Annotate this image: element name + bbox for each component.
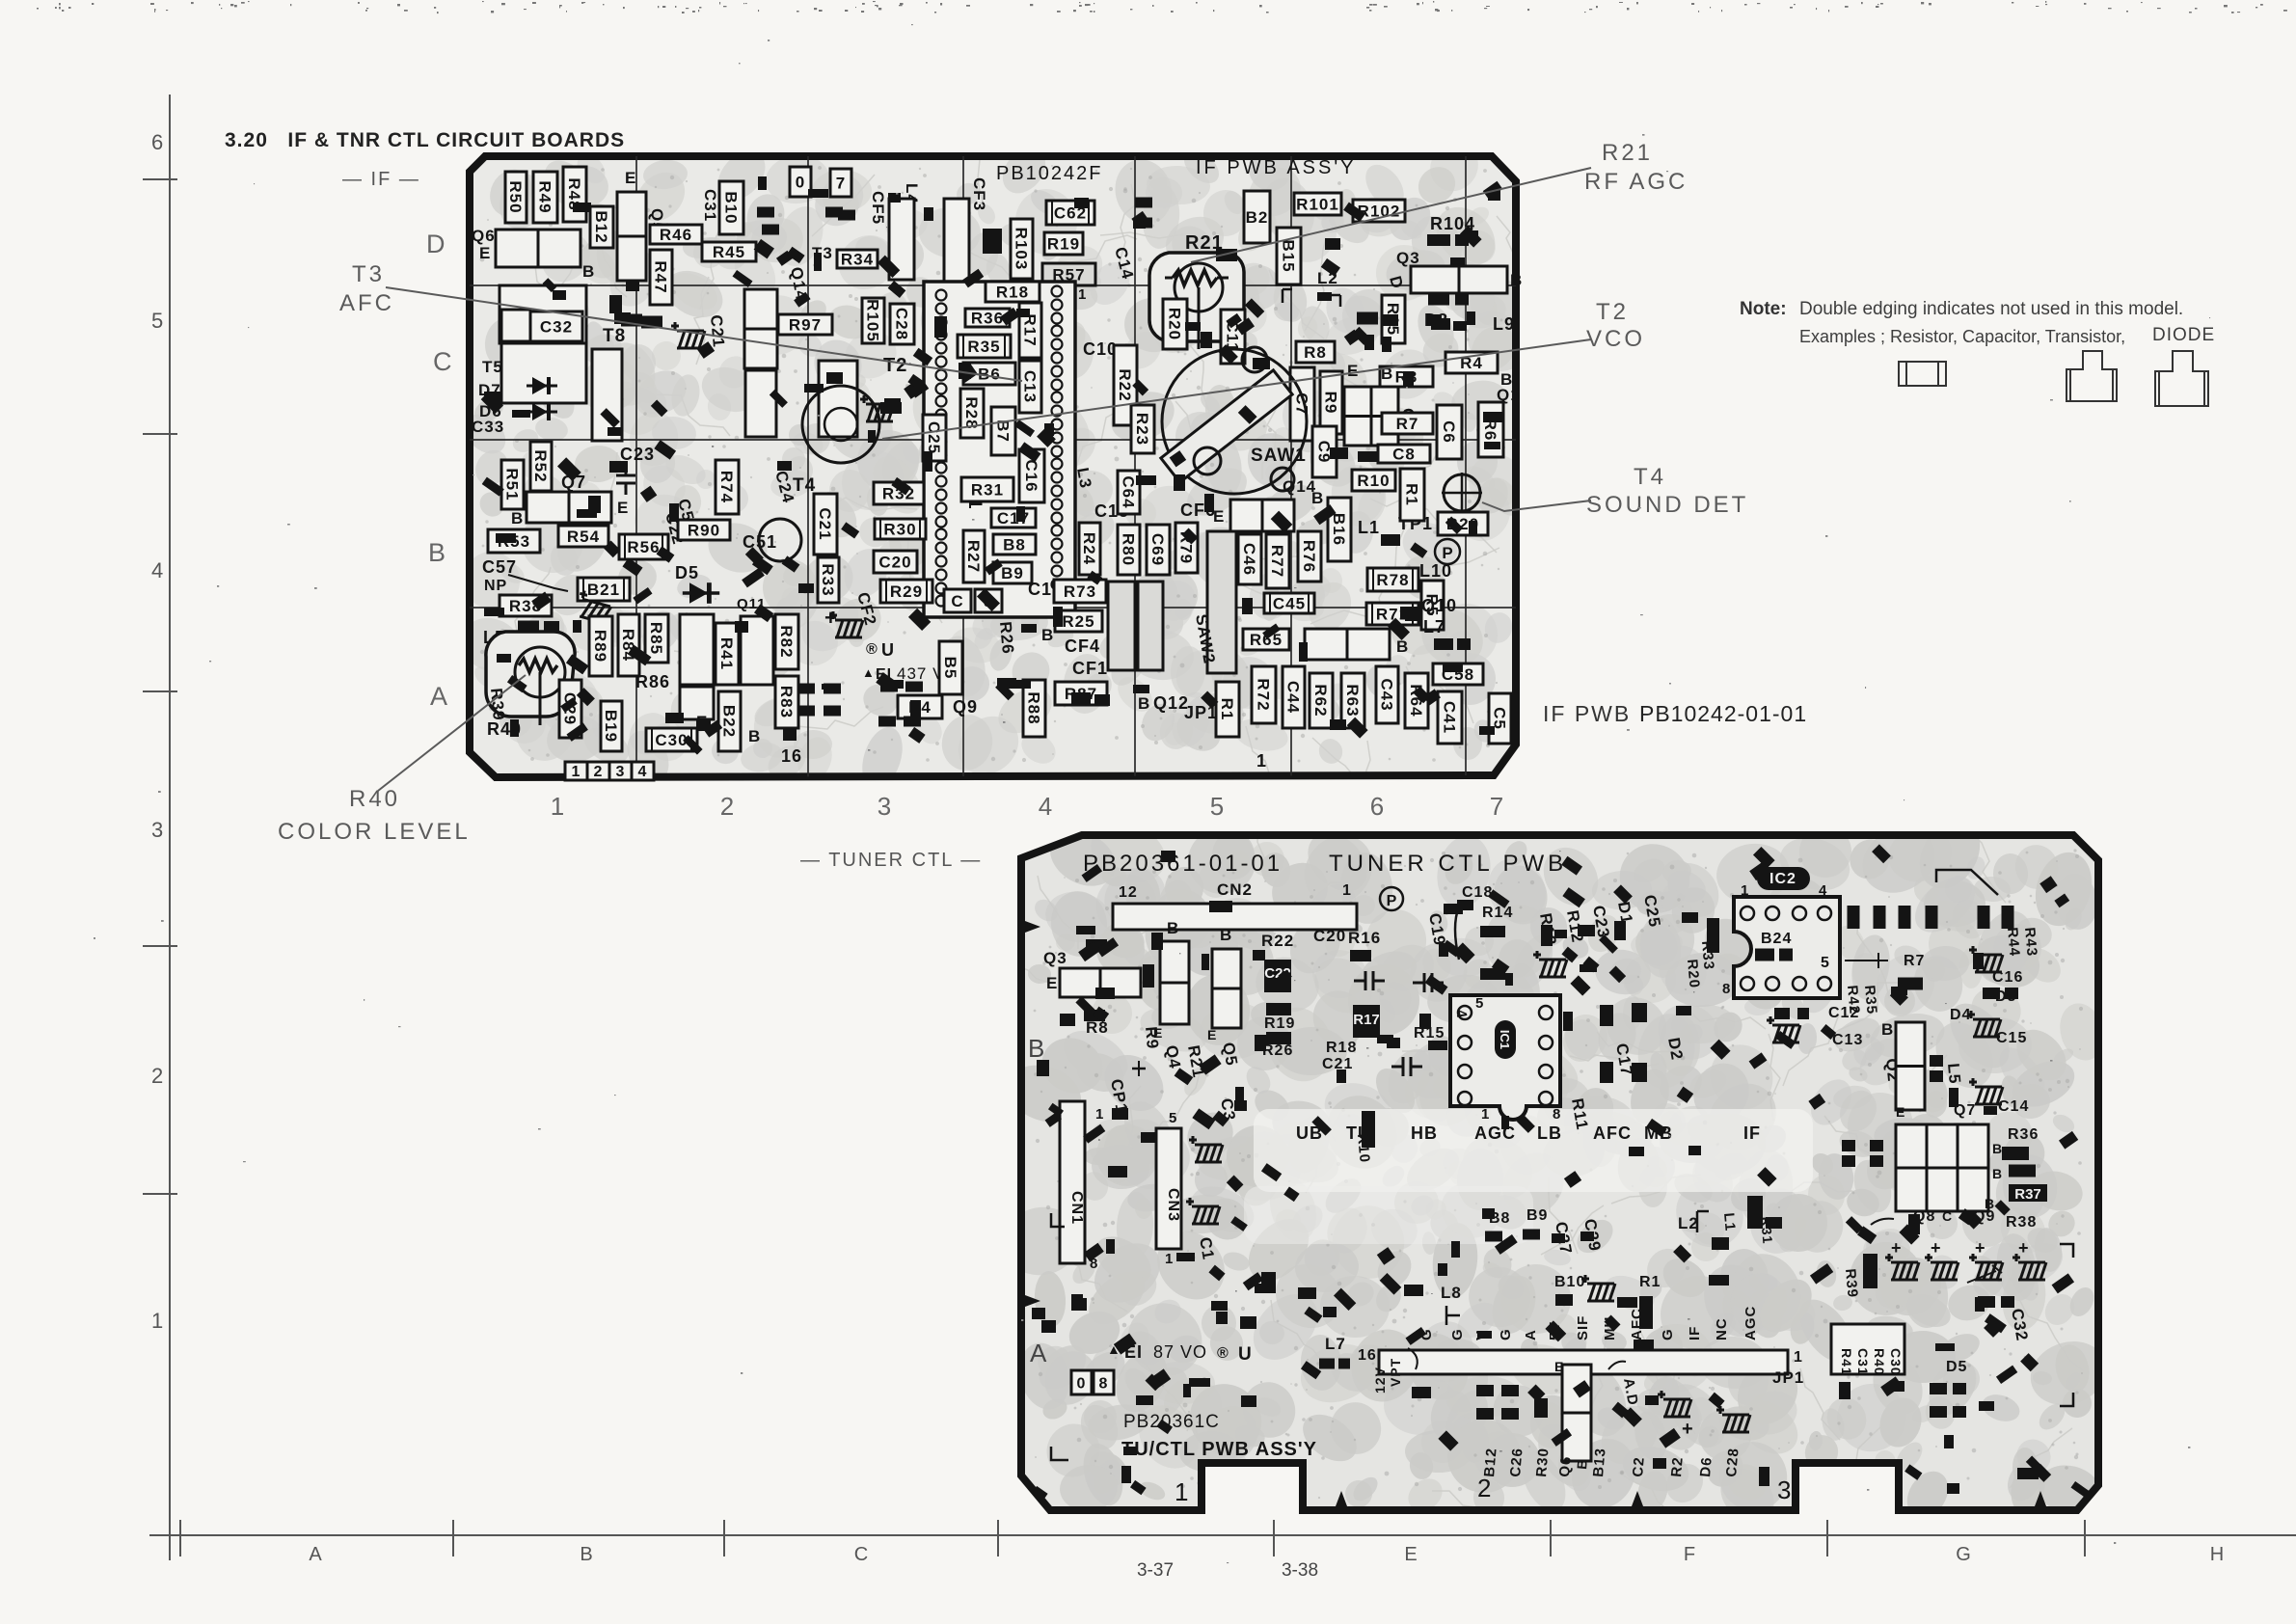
svg-text:C21: C21 [707, 314, 728, 349]
resistor R88 [1023, 680, 1045, 737]
svg-text:Q3: Q3 [1396, 249, 1420, 267]
svg-text:B5: B5 [941, 657, 959, 680]
resistor R37 black body [2009, 1184, 2047, 1202]
svg-text:4: 4 [1039, 792, 1052, 821]
svg-text:PB10242-01-01: PB10242-01-01 [1639, 701, 1807, 726]
resistor R71 [1366, 603, 1418, 625]
capacitor C7 [1290, 367, 1314, 441]
svg-text:16: 16 [781, 746, 802, 766]
index triangle c [2035, 1491, 2046, 1506]
solder pad [762, 225, 779, 235]
svg-text:SOUND DET: SOUND DET [1586, 492, 1748, 518]
svg-text:1: 1 [1794, 1349, 1803, 1366]
solder pad [1434, 638, 1453, 650]
resistor R83 [775, 676, 798, 728]
transistor Q7 tuner body [1896, 1124, 1988, 1211]
svg-text:E: E [1046, 974, 1058, 992]
svg-text:C46: C46 [1240, 543, 1258, 576]
solder pad [1427, 234, 1450, 246]
index triangle b [1632, 1491, 1643, 1506]
potentiometer R40 body [486, 632, 575, 717]
svg-text:B: B [1220, 926, 1232, 944]
svg-text:VCO: VCO [1586, 326, 1645, 352]
resistor R105 [862, 298, 884, 343]
resistor R72 [1252, 666, 1276, 723]
resistor R6 [1478, 402, 1503, 457]
svg-text:IF: IF [1687, 1326, 1703, 1340]
inductor L2 bracket [1283, 289, 1340, 307]
svg-text:0: 0 [1077, 1376, 1087, 1393]
svg-text:Examples ; Resistor, Capacitor: Examples ; Resistor, Capacitor, Transist… [1799, 327, 2125, 346]
svg-text:4: 4 [1819, 882, 1827, 899]
capacitor symbol C19a [1413, 973, 1444, 992]
resistor R22 [1114, 345, 1137, 425]
svg-text:C31: C31 [701, 189, 719, 222]
svg-text:CF5: CF5 [869, 191, 887, 225]
svg-text:C14: C14 [1998, 1098, 2029, 1115]
solder pad [2009, 1165, 2036, 1177]
svg-text:B: B [1992, 1141, 2003, 1156]
svg-text:C1: C1 [1196, 1235, 1218, 1261]
transistor Q5 body [617, 192, 646, 281]
fiducial box 0 [790, 167, 811, 197]
resistor R33 black body [1707, 918, 1719, 953]
svg-text:R88: R88 [1025, 691, 1043, 724]
svg-text:HB: HB [1411, 1123, 1438, 1143]
svg-text:NP: NP [484, 578, 507, 594]
svg-text:R1: R1 [1218, 698, 1236, 721]
resistor R45 [702, 242, 756, 261]
svg-text:CN1: CN1 [1068, 1191, 1085, 1225]
C57 leader wire [508, 575, 568, 591]
svg-text:7: 7 [836, 175, 846, 193]
IC IC2 body [1734, 897, 1840, 998]
svg-text:3-37: 3-37 [1137, 1560, 1174, 1581]
svg-text:L8: L8 [1441, 1284, 1462, 1302]
transformer T5 cell [501, 310, 530, 341]
svg-text:E: E [1213, 507, 1225, 526]
TUNER CTL PWB board outline [1021, 835, 2098, 1510]
svg-text:R46: R46 [660, 226, 692, 244]
IC IC2 label pill [1757, 867, 1810, 890]
capacitor C8 [1378, 445, 1430, 464]
capacitor C41 [1438, 691, 1462, 744]
solder pad [1208, 1265, 1225, 1282]
solder pad [1774, 1008, 1790, 1019]
svg-text:R36: R36 [2008, 1126, 2039, 1143]
solder pad [983, 229, 1002, 254]
capacitor C62 [1046, 201, 1094, 225]
solder pad [838, 210, 855, 221]
svg-text:12V: 12V [1372, 1367, 1388, 1394]
capacitor C44 [1283, 666, 1305, 728]
fiducial box 9 [975, 589, 1002, 612]
svg-text:RF AGC: RF AGC [1584, 169, 1688, 195]
solder pad [905, 682, 923, 692]
svg-text:T5: T5 [482, 358, 503, 376]
page edge scan speckle [37, 1, 2287, 14]
capacitor C69 [1147, 525, 1170, 575]
bottom tick [2084, 1520, 2086, 1556]
solder pad [1338, 1359, 1350, 1369]
inductor symbol tuner b [1767, 1016, 1800, 1042]
svg-text:R103: R103 [1013, 228, 1031, 271]
diode symbol [527, 377, 557, 394]
IF PWB board substrate [470, 156, 1516, 777]
electrolytic row [2012, 1254, 2046, 1280]
svg-text:COLOR LEVEL: COLOR LEVEL [278, 819, 471, 845]
svg-text:AFC: AFC [339, 290, 394, 316]
svg-text:B: B [1028, 1034, 1045, 1063]
fiducial box 0 tuner [1071, 1370, 1092, 1394]
component B4 [898, 695, 942, 718]
svg-text:1: 1 [1741, 882, 1749, 899]
svg-text:3: 3 [151, 818, 163, 842]
solder pad [622, 557, 642, 576]
IF grid line row [470, 439, 1516, 441]
resistor R1 tuner black body [1639, 1296, 1653, 1329]
solder pad [1364, 335, 1374, 350]
solder pad [1930, 1383, 1947, 1394]
solder pad [825, 207, 843, 218]
svg-text:R97: R97 [789, 316, 822, 335]
svg-text:R24: R24 [1080, 532, 1098, 565]
bottom tick [179, 1520, 181, 1556]
bottom tick [452, 1520, 454, 1556]
svg-text:— IF —: — IF — [342, 169, 420, 190]
resistor R5 [1421, 581, 1444, 630]
callout leader T2 [882, 339, 1591, 439]
svg-text:Q9: Q9 [953, 697, 978, 717]
example transistor symbol [2066, 351, 2117, 401]
solder pad [1534, 1398, 1548, 1418]
svg-text:CN2: CN2 [1217, 880, 1253, 899]
svg-text:L1: L1 [1358, 518, 1380, 537]
resistor R20 [1163, 299, 1187, 349]
solder pad [1404, 1285, 1423, 1296]
svg-text:D6: D6 [1697, 1456, 1715, 1478]
inductor symbol near R97 [671, 322, 705, 348]
resistor R57 [1042, 263, 1095, 285]
bottom tick [1826, 1520, 1828, 1556]
svg-text:R77: R77 [1268, 545, 1286, 578]
resistor R97 [778, 314, 832, 335]
capacitor C30 [646, 728, 697, 751]
svg-text:R30: R30 [883, 521, 916, 539]
svg-text:C33: C33 [472, 418, 504, 436]
svg-text:R16: R16 [1348, 929, 1381, 947]
SAW filter SAW1 can [1162, 349, 1307, 494]
example resistor symbol [1899, 362, 1946, 386]
svg-text:B21: B21 [587, 581, 620, 599]
svg-text:+: + [1975, 1238, 1986, 1258]
svg-text:R80: R80 [1120, 533, 1138, 566]
margin tick 6/5 [143, 178, 177, 180]
resistor R52 [530, 442, 552, 491]
svg-text:— TUNER CTL —: — TUNER CTL — [800, 850, 982, 871]
component B16 [1328, 498, 1351, 561]
transistor cell near R86 lower [680, 687, 714, 719]
index arrow left bottom [1025, 1295, 1040, 1307]
resistor R79 [1175, 523, 1198, 573]
capacitor C22 black body [1264, 960, 1291, 992]
connector CN1 [1060, 1101, 1085, 1263]
resistor R10 [1352, 470, 1395, 491]
solder pad [2005, 988, 2018, 999]
solder pad [797, 684, 815, 694]
svg-text:E: E [625, 169, 636, 187]
svg-text:R18: R18 [996, 284, 1029, 302]
svg-text:B: B [1992, 1166, 2003, 1181]
svg-text:Q10: Q10 [1421, 596, 1457, 615]
solder pad [2002, 1147, 2029, 1160]
capacitor C51 can [759, 519, 801, 561]
IF grid line col [1134, 156, 1136, 777]
solder pad [1614, 921, 1626, 940]
svg-text:B9: B9 [1001, 564, 1024, 582]
resistor R76 [1298, 531, 1321, 582]
svg-text:B: B [428, 538, 446, 567]
solder pad [1983, 988, 2000, 999]
svg-text:C20: C20 [878, 554, 911, 572]
capacitor C6 [1437, 405, 1462, 459]
margin tick 4/3 [143, 690, 177, 692]
svg-text:8: 8 [1722, 981, 1731, 997]
resistor R30 [875, 519, 926, 539]
svg-text:5: 5 [1169, 1110, 1177, 1126]
scattered solder pads IF board [481, 176, 1503, 755]
svg-text:+: + [1891, 1238, 1903, 1258]
svg-text:T2: T2 [1596, 299, 1629, 325]
solder pad [824, 684, 841, 694]
solder pad [1611, 1402, 1628, 1419]
svg-text:R83: R83 [777, 686, 796, 718]
svg-text:B15: B15 [1280, 239, 1298, 272]
capacitor C17 box [991, 508, 1036, 528]
svg-text:B: B [1396, 637, 1409, 656]
svg-text:2: 2 [151, 1064, 163, 1088]
transformer T5 lower body [501, 343, 586, 403]
solder pad [797, 706, 815, 717]
component B15 [1277, 228, 1301, 284]
svg-text:R39: R39 [1842, 1268, 1861, 1299]
solder pad [1071, 692, 1091, 704]
svg-text:R35: R35 [1861, 985, 1880, 1015]
svg-text:5: 5 [1821, 955, 1830, 971]
capacitor symbol near T2 [860, 395, 894, 421]
component B5 [939, 641, 962, 694]
svg-text:R9: R9 [1322, 392, 1340, 415]
resistor R48 [563, 167, 586, 222]
callout leader T3 [386, 287, 1022, 381]
resistor R19 black body [1266, 1003, 1291, 1015]
solder pad [1874, 906, 1886, 929]
svg-text:C57: C57 [482, 557, 517, 577]
svg-text:R78: R78 [1376, 571, 1409, 589]
svg-text:A: A [309, 1544, 322, 1565]
svg-text:E: E [617, 499, 629, 517]
resistor R33 [818, 557, 839, 603]
solder pad [1212, 1111, 1229, 1127]
svg-text:R45: R45 [713, 243, 745, 261]
solder pad [1431, 318, 1450, 330]
capacitor C58 [1433, 663, 1483, 685]
solder pad [824, 706, 841, 717]
SAW1 pin circle b [1242, 347, 1267, 372]
svg-text:4: 4 [638, 764, 647, 780]
svg-text:AFC: AFC [1593, 1123, 1632, 1143]
svg-text:R89: R89 [591, 630, 609, 663]
svg-text:8: 8 [1553, 1106, 1561, 1123]
diode symbol [683, 582, 719, 604]
svg-text:DIODE: DIODE [2152, 325, 2215, 345]
svg-text:IF PWB ASS'Y: IF PWB ASS'Y [1196, 157, 1357, 178]
resistor R10 tuner black body [1362, 1111, 1375, 1148]
transistor cells near R82 [741, 616, 773, 685]
capacitor C43 [1376, 666, 1398, 723]
svg-text:E: E [1896, 1104, 1905, 1120]
resistor R54 [558, 526, 608, 547]
transistor Q3 body [1411, 266, 1507, 293]
svg-text:AGC: AGC [1742, 1306, 1759, 1340]
svg-text:R30: R30 [1533, 1447, 1553, 1477]
SAW2 strip b [1108, 582, 1135, 670]
IF grid line col [807, 156, 809, 777]
transformer T8 body [592, 349, 622, 441]
inductor symbol row B [574, 589, 613, 623]
svg-text:R23: R23 [1133, 413, 1151, 446]
electrolytic row [1925, 1254, 1958, 1280]
svg-text:C12: C12 [1828, 1005, 1859, 1021]
solder pad [621, 314, 642, 327]
svg-text:C25: C25 [925, 421, 943, 454]
svg-text:LB: LB [1537, 1123, 1562, 1143]
svg-text:Q6: Q6 [1556, 1455, 1575, 1477]
svg-text:1: 1 [1175, 1477, 1189, 1506]
svg-text:IF: IF [1743, 1123, 1761, 1143]
resistor R17 [1019, 303, 1041, 358]
solder pad [1319, 1359, 1335, 1369]
transistor Q6 tuner body [1562, 1365, 1591, 1461]
solder pad [1953, 1383, 1966, 1394]
solder pad [1755, 949, 1774, 961]
resistor R65 [1243, 629, 1289, 650]
capacitor C21 [814, 494, 837, 555]
solder pad [1209, 901, 1232, 912]
svg-text:R17: R17 [1353, 1012, 1380, 1028]
svg-text:R40: R40 [1872, 1348, 1887, 1376]
svg-text:A: A [1030, 1339, 1047, 1367]
inductor symbol tuner c [1189, 1136, 1223, 1162]
svg-text:R56: R56 [627, 538, 660, 556]
connector 16-1 [1379, 1350, 1788, 1374]
svg-text:B: B [511, 509, 524, 528]
solder pad [888, 281, 906, 298]
svg-text:R105: R105 [864, 299, 882, 342]
svg-text:R41: R41 [1839, 1348, 1854, 1376]
solder pad [2001, 1296, 2014, 1308]
resistor R46 [650, 225, 702, 244]
svg-text:Q3: Q3 [1043, 949, 1067, 967]
resistor R101 [1294, 193, 1341, 215]
electrolytic c [1969, 1078, 2003, 1104]
svg-text:B: B [1138, 694, 1150, 713]
index arrow left top [1025, 921, 1040, 933]
svg-text:3: 3 [1777, 1475, 1792, 1504]
solder pad [1357, 312, 1378, 325]
bottom tick [997, 1520, 999, 1556]
page left margin rule [169, 95, 171, 1560]
svg-text:R52: R52 [531, 449, 550, 482]
solder pad [1480, 968, 1505, 980]
svg-text:C: C [1942, 1208, 1953, 1224]
svg-text:B8: B8 [1003, 536, 1026, 555]
svg-text:G: G [1498, 1328, 1514, 1340]
example diode symbol [2155, 351, 2208, 406]
capacitor symbol [616, 464, 635, 495]
svg-text:P: P [1442, 544, 1452, 562]
svg-text:U: U [881, 640, 895, 660]
svg-text:C16: C16 [1022, 459, 1040, 492]
solder pad [1842, 1140, 1855, 1151]
svg-text:R90: R90 [688, 522, 720, 540]
solder pad [1383, 314, 1398, 326]
solder pad [1476, 1385, 1494, 1396]
svg-text:R54: R54 [567, 528, 600, 546]
svg-text:4: 4 [151, 558, 163, 582]
capacitor C11 [1221, 310, 1245, 364]
inductor symbol tuner a [1533, 951, 1567, 977]
svg-text:R26: R26 [996, 621, 1017, 656]
transistor Q7 body [527, 492, 611, 523]
resistor R31 [961, 477, 1013, 501]
solder pad [1541, 925, 1553, 946]
svg-text:1: 1 [1078, 286, 1087, 303]
svg-text:C6: C6 [1440, 420, 1458, 444]
transformer T5 body [500, 285, 586, 343]
solder pad [757, 207, 774, 218]
solder pad [1582, 957, 1599, 973]
resistor R51 [501, 460, 524, 509]
svg-text:R22: R22 [1261, 932, 1294, 950]
resistor R47 [650, 250, 672, 305]
svg-text:B: B [1167, 919, 1179, 937]
IC IC1 tuner pins [1458, 1006, 1553, 1105]
svg-text:R7: R7 [1904, 953, 1925, 969]
resistor R8 [1296, 341, 1335, 363]
diode symbol [527, 403, 557, 420]
svg-text:PB10242F: PB10242F [996, 163, 1103, 184]
svg-text:Q6: Q6 [472, 227, 496, 245]
transistor cells near CF6 [1230, 500, 1294, 531]
svg-text:G: G [1449, 1328, 1466, 1340]
resistor R77 [1266, 534, 1289, 588]
potentiometer R40 circle [515, 647, 565, 697]
svg-text:7: 7 [1490, 792, 1503, 821]
svg-text:C31: C31 [1855, 1348, 1871, 1376]
resistor R1 [1216, 682, 1239, 737]
solder pad [1501, 1385, 1519, 1396]
solder pad [1848, 906, 1860, 929]
resistor R27 [963, 530, 985, 582]
callout leader R40 [378, 675, 526, 791]
svg-text:E: E [1347, 362, 1359, 380]
svg-text:IC2: IC2 [1769, 871, 1796, 887]
index triangle a [1336, 1491, 1347, 1506]
SAW filter SAW1 crystal bar [1161, 370, 1292, 482]
resistor R102 [1353, 200, 1405, 222]
svg-text:R19: R19 [1047, 235, 1080, 254]
